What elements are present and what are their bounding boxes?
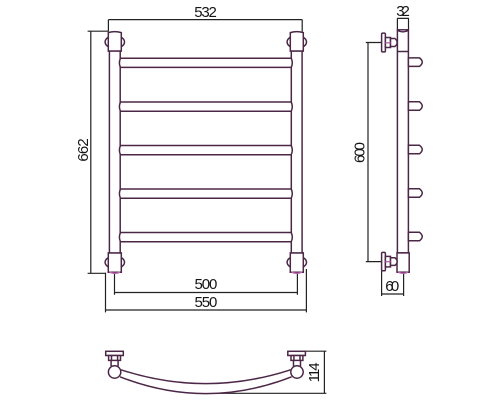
svg-text:60: 60 bbox=[385, 278, 399, 295]
svg-text:32: 32 bbox=[396, 3, 410, 20]
svg-text:550: 550 bbox=[195, 294, 218, 311]
svg-text:600: 600 bbox=[351, 142, 368, 163]
svg-text:500: 500 bbox=[195, 276, 218, 293]
svg-text:114: 114 bbox=[306, 362, 323, 382]
svg-text:662: 662 bbox=[75, 138, 92, 161]
svg-text:532: 532 bbox=[194, 4, 217, 21]
